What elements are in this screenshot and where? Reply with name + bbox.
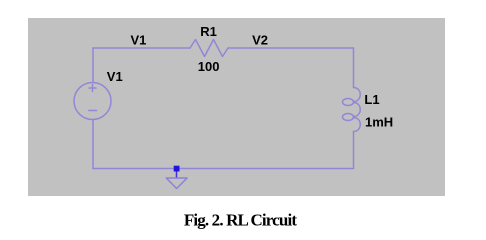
wire: top-left segment (node V1)	[93, 47, 190, 49]
wire: right vertical bottom	[353, 132, 355, 169]
svg-text:V2: V2	[252, 33, 268, 48]
wire: left vertical bottom	[92, 120, 94, 169]
wire: right vertical top	[353, 48, 355, 88]
wire: top-right segment (node V2)	[228, 47, 354, 49]
svg-text:100: 100	[198, 59, 220, 74]
wire: left vertical top	[92, 48, 94, 83]
svg-text:V1: V1	[131, 33, 147, 48]
resistor R1	[190, 40, 228, 57]
voltage source V1	[74, 83, 111, 120]
inductor L1	[354, 88, 361, 102]
ground symbol	[176, 171, 178, 178]
svg-text:1mH: 1mH	[365, 115, 393, 130]
schematic gray canvas	[28, 18, 445, 196]
svg-text:Fig. 2. RL Circuit: Fig. 2. RL Circuit	[184, 211, 298, 230]
svg-text:R1: R1	[200, 24, 217, 39]
svg-text:V1: V1	[107, 69, 123, 84]
wire: bottom segment	[93, 168, 354, 170]
svg-text:L1: L1	[364, 92, 379, 107]
node junction (blue square)	[174, 166, 180, 172]
